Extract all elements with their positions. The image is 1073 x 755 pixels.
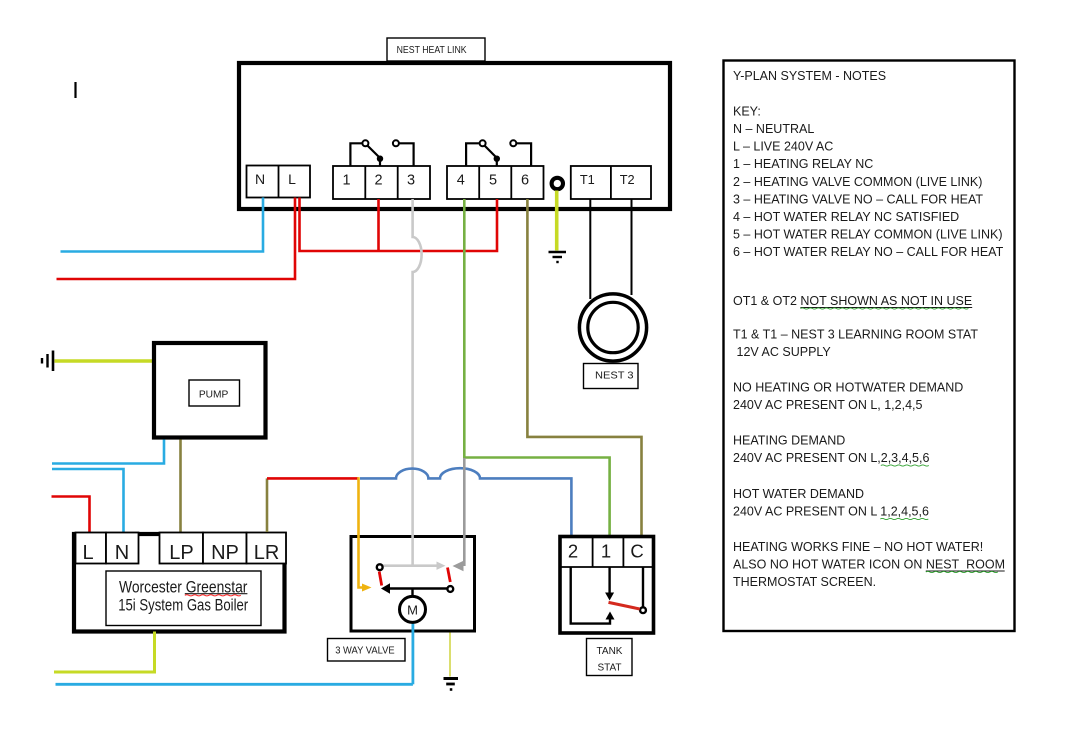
svg-text:N: N [255, 171, 265, 187]
svg-text:L: L [82, 542, 93, 564]
svg-text:3: 3 [407, 173, 415, 189]
svg-text:NO HEATING OR HOTWATER DEMAND: NO HEATING OR HOTWATER DEMAND [733, 381, 963, 395]
grammar squiggle hot water numbers [880, 518, 928, 519]
svg-text:Y-PLAN SYSTEM - NOTES: Y-PLAN SYSTEM - NOTES [733, 69, 886, 83]
valve pivot contact dot [377, 564, 383, 570]
wire red LR to junction [267, 477, 359, 480]
hot water relay K2 blade 4-5 [485, 146, 500, 166]
hot water relay K2 contact arm from 6 [510, 140, 531, 166]
svg-text:M: M [407, 603, 418, 618]
svg-text:4 – HOT WATER RELAY NC SATISFI: 4 – HOT WATER RELAY NC SATISFIED [733, 210, 959, 224]
wire valve earth yellow-green [449, 633, 451, 677]
tank stat enclosure [560, 537, 654, 634]
svg-text:12V AC SUPPLY: 12V AC SUPPLY [737, 345, 832, 359]
svg-text:N: N [115, 542, 129, 564]
tank stat red blade [609, 602, 640, 609]
wire earth yellow-green from grommet [555, 191, 559, 251]
svg-text:TANK: TANK [597, 646, 623, 657]
svg-text:STAT: STAT [597, 663, 621, 674]
boiler terminal NP [203, 533, 247, 565]
stray text cursor mark [74, 82, 76, 98]
wire gold to valve with arrow [357, 477, 360, 533]
svg-text:T1 & T1 – NEST 3 LEARNING ROOM: T1 & T1 – NEST 3 LEARNING ROOM STAT [733, 328, 978, 342]
label NEST 3 [584, 364, 639, 389]
terminal block 4 5 6 [447, 166, 544, 199]
wire gold tail inside valve with arrow [359, 533, 372, 592]
tank stat wire from 1 with down arrow [605, 567, 614, 601]
label NEST HEAT LINK [387, 38, 485, 61]
heat link enclosure U1 [239, 63, 670, 209]
label PUMP [189, 380, 240, 406]
wire green from terminal 4 to tank stat 1 [464, 199, 609, 535]
wire red from terminal 2 to bus [377, 199, 380, 251]
svg-text:LP: LP [169, 542, 193, 564]
svg-text:4: 4 [457, 173, 465, 189]
svg-text:1: 1 [601, 541, 611, 562]
svg-text:NEST 3: NEST 3 [595, 371, 634, 382]
valve enclosure [351, 537, 475, 632]
label TANK STAT [587, 639, 633, 676]
terminal block 1 2 3 [333, 166, 430, 199]
boiler enclosure [74, 534, 285, 632]
notes title [733, 69, 1005, 589]
svg-text:C: C [630, 541, 643, 562]
ground symbol under valve [444, 679, 459, 690]
svg-text:N – NEUTRAL: N – NEUTRAL [733, 122, 814, 136]
wire T1 black [589, 199, 591, 299]
svg-text:OT1 & OT2 NOT SHOWN AS NOT IN: OT1 & OT2 NOT SHOWN AS NOT IN USE [733, 294, 972, 308]
svg-text:PUMP: PUMP [199, 390, 229, 401]
heating relay K1 contact arm from 3 [393, 140, 414, 166]
wire boiler earth yellow-green [54, 632, 155, 673]
ground symbol left of pump [42, 351, 53, 372]
wire pump live olive to LP [179, 440, 182, 533]
label 3 WAY VALVE [328, 639, 406, 662]
valve right contact circle [447, 586, 453, 592]
wire cyan from motor down [411, 624, 414, 685]
wire cyan bottom from valve motor [56, 683, 413, 686]
svg-text:240V AC PRESENT ON L, 1,2,4,5: 240V AC PRESENT ON L, 1,2,4,5 [733, 398, 922, 412]
svg-text:NEST HEAT LINK: NEST HEAT LINK [397, 45, 467, 56]
grammar squiggle NEST ROOM [926, 571, 998, 572]
wire boiler N blue [52, 469, 124, 532]
wire live red from L to left stub [57, 198, 296, 280]
svg-text:L – LIVE 240V AC: L – LIVE 240V AC [733, 140, 833, 154]
svg-text:5: 5 [489, 173, 497, 189]
wire grey from terminal 3 with hop [413, 199, 422, 533]
svg-text:T2: T2 [620, 172, 635, 187]
wire live red link L to bus [300, 198, 498, 252]
grammar squiggle heating demand numbers [881, 465, 929, 466]
wire slate blue junction to tank stat 2 with hops [360, 468, 571, 535]
svg-text:6: 6 [521, 173, 529, 189]
svg-text:HEATING DEMAND: HEATING DEMAND [733, 434, 845, 448]
svg-text:HEATING WORKS FINE – NO HOT WA: HEATING WORKS FINE – NO HOT WATER! [733, 540, 983, 554]
tank stat wire from 2 with up arrow [571, 567, 615, 624]
svg-text:6 – HOT WATER RELAY NO – CALL: 6 – HOT WATER RELAY NO – CALL FOR HEAT [733, 245, 1004, 259]
wire neutral blue from N [61, 198, 264, 252]
svg-text:3 – HEATING VALVE NO – CALL FO: 3 – HEATING VALVE NO – CALL FOR HEAT [733, 193, 983, 207]
wire boiler LR olive up [266, 478, 269, 532]
svg-text:LR: LR [254, 542, 280, 564]
grammar squiggle OT line [800, 308, 968, 309]
valve black common bar with arrow [381, 583, 450, 596]
wire dark grey from green corner into valve [453, 458, 465, 571]
svg-text:240V AC PRESENT ON L 1,2,4,5,6: 240V AC PRESENT ON L 1,2,4,5,6 [733, 505, 929, 519]
heating relay K1 blade 1-2 [368, 146, 384, 166]
svg-text:15i System Gas Boiler: 15i System Gas Boiler [118, 597, 248, 615]
boiler terminal L [76, 533, 107, 565]
svg-text:2 – HEATING VALVE COMMON (LIVE: 2 – HEATING VALVE COMMON (LIVE LINK) [733, 175, 982, 189]
valve red blade left [379, 572, 382, 586]
notes panel frame [724, 61, 1015, 632]
tank stat wire from C with contact circle [640, 567, 646, 613]
terminal block N L [247, 166, 311, 198]
valve motor M [400, 596, 426, 622]
wire pump neutral blue [52, 440, 164, 464]
wire boiler L red [52, 497, 90, 533]
grommet earth terminal [552, 178, 563, 189]
svg-text:1 – HEATING RELAY NC: 1 – HEATING RELAY NC [733, 157, 873, 171]
svg-text:L: L [288, 171, 296, 187]
boiler name text box [106, 571, 261, 626]
svg-text:ALSO NO HOT WATER ICON ON NEST: ALSO NO HOT WATER ICON ON NEST ROOM [733, 558, 1005, 572]
svg-text:2: 2 [375, 173, 383, 189]
svg-text:240V AC PRESENT ON L,2,3,4,5,6: 240V AC PRESENT ON L,2,3,4,5,6 [733, 451, 929, 465]
svg-text:2: 2 [568, 541, 578, 562]
svg-text:5 – HOT WATER RELAY COMMON (LI: 5 – HOT WATER RELAY COMMON (LIVE LINK) [733, 228, 1003, 242]
boiler terminal N [106, 533, 139, 565]
wire olive from terminal 6 to tank stat C [527, 199, 641, 535]
boiler terminal LP [160, 533, 204, 565]
tank stat terminal row [560, 537, 654, 568]
boiler terminal LR [247, 533, 287, 565]
wire grey terminal3 tail inside valve [382, 533, 446, 570]
svg-text:T1: T1 [580, 172, 595, 187]
nest 3 room stat outer ring [579, 294, 646, 361]
svg-text:1: 1 [342, 173, 350, 189]
svg-text:HOT WATER DEMAND: HOT WATER DEMAND [733, 487, 864, 501]
svg-text:KEY:: KEY: [733, 105, 761, 119]
svg-text:THERMOSTAT SCREEN.: THERMOSTAT SCREEN. [733, 575, 876, 589]
valve red blade right [448, 568, 451, 583]
wire T2 black [631, 199, 633, 295]
terminal block T1 T2 [571, 166, 651, 199]
ground symbol under grommet [549, 252, 567, 262]
hot water relay K2 contact arm from 4 [466, 140, 486, 166]
pump enclosure [154, 343, 266, 438]
wire earth yellow-green to pump [55, 359, 153, 362]
heating relay K1 contact arm from 1 [350, 140, 368, 166]
svg-text:3 WAY VALVE: 3 WAY VALVE [335, 646, 395, 657]
svg-text:NP: NP [211, 542, 239, 564]
